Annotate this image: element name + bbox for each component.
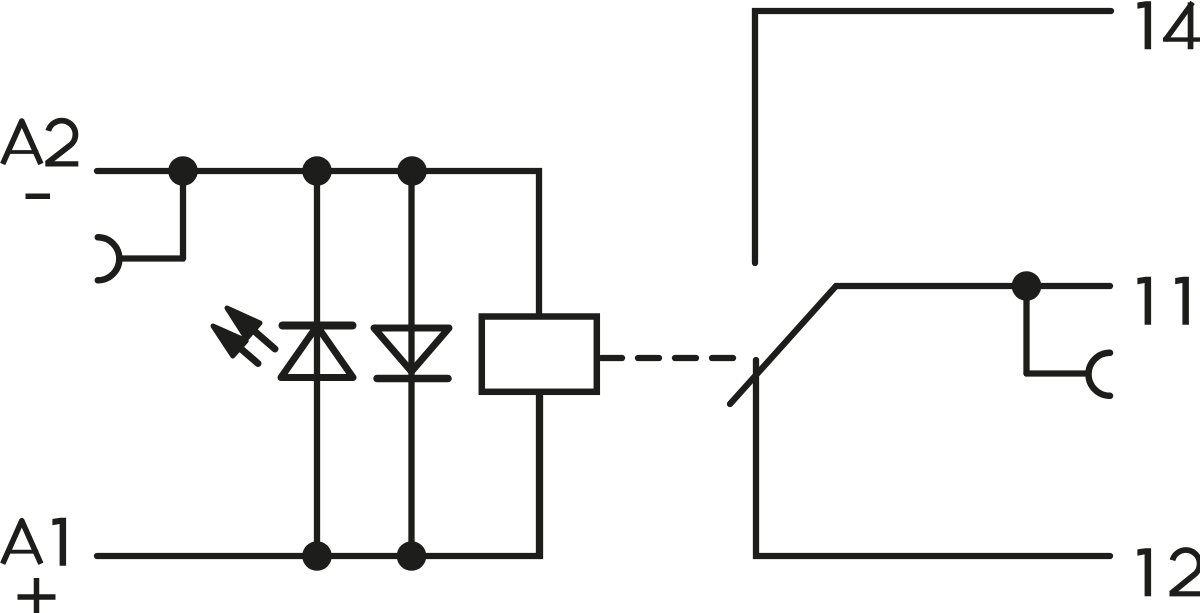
mechanical link (dashed) coil to contact [601, 355, 741, 361]
wire: A1 bottom rail to coil corner [97, 395, 540, 556]
clamp contact symbol at 11 [1089, 353, 1111, 396]
wire: A2 top rail to coil corner [97, 171, 539, 313]
node: junction dot A2/clamp [168, 156, 198, 186]
plus polarity mark under A1 [18, 578, 56, 613]
wire: A2 clamp branch vertical [180, 171, 186, 259]
label 11 [1137, 277, 1189, 325]
LED D1 triangle [281, 326, 353, 378]
wire: coil bottom lead [536, 395, 542, 556]
wire: terminal 14 lead (top right horizontal + vertical drop) [755, 11, 1111, 263]
relay coil K1 [482, 317, 597, 392]
wire: terminal 12 lead (vertical + bottom right horizontal) [756, 360, 1110, 556]
label A2 [3, 121, 79, 164]
node: junction dot diode branch bottom [397, 541, 427, 571]
node: junction dot terminal 11 / clamp [1012, 271, 1042, 301]
node: junction dot LED branch top [302, 156, 332, 186]
wire: clamp branch 11 horizontal [1027, 370, 1089, 376]
label A1 [3, 518, 66, 566]
wire: LED branch vertical [314, 171, 320, 556]
wire: A2 clamp branch horizontal [120, 255, 183, 261]
diode D2 triangle [374, 328, 449, 372]
wire: clamp branch 11 vertical [1023, 286, 1029, 374]
node: junction dot diode branch top [397, 156, 427, 186]
LED D1 emission arrow lower [213, 326, 246, 356]
node: junction dot LED branch bottom [302, 541, 332, 571]
LED D1 cathode bar [283, 322, 353, 330]
LED D1 emission arrow upper [227, 308, 260, 339]
label 12 [1137, 548, 1200, 596]
label 14 [1137, 1, 1200, 49]
minus polarity mark under A2 [26, 193, 51, 199]
diode D2 cathode bar [377, 375, 448, 383]
wire: freewheel diode branch vertical [408, 171, 414, 556]
clamp contact symbol at A2 [98, 237, 120, 280]
relay contact lever + wire to terminal 11 [730, 286, 1110, 404]
